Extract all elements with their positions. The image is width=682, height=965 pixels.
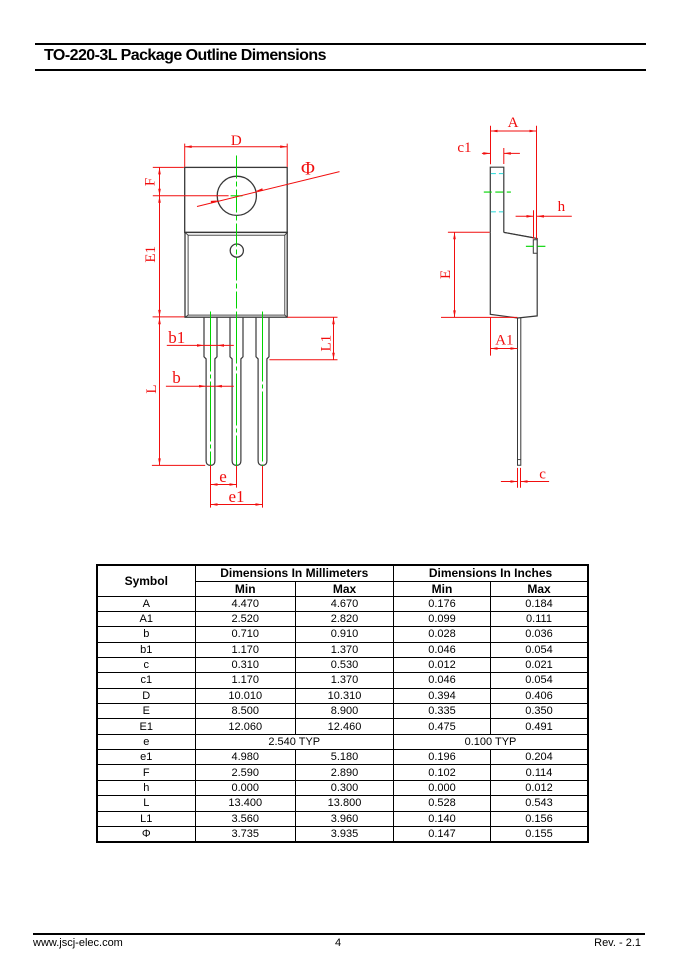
side view: top chamfer edge (504, 232, 532, 237)
svg-text:h: h (558, 199, 566, 215)
centerline: main vertical axis (front view) (236, 156, 238, 309)
dimensions table (96, 564, 589, 843)
svg-text:D: D (231, 133, 242, 149)
dimension e (lead pitch) (210, 465, 212, 507)
dimension b1 (lead width at base) (167, 344, 234, 346)
dimension L (lead length) (153, 316, 185, 318)
dimension b (lead width) (166, 385, 234, 387)
front view: lead 2 (center pin) (230, 318, 243, 466)
svg-text:c1: c1 (457, 140, 471, 156)
dimension A (overall thickness) (490, 126, 492, 165)
svg-text:e1: e1 (228, 487, 244, 506)
side view: body outline (490, 232, 537, 318)
front view: molded body outer outline (185, 232, 287, 317)
svg-text:E: E (438, 270, 454, 279)
svg-text:e: e (219, 467, 227, 486)
front view: lead 1 (left pin) (204, 318, 217, 466)
centerline: lead 1 axis (210, 312, 212, 468)
front view: tab outline with mounting flange (185, 167, 288, 232)
dimension &#934; leader (hole diameter) (197, 172, 340, 207)
dimension F (tab top to hole center) (153, 166, 184, 168)
svg-text:Φ: Φ (301, 158, 315, 179)
svg-text:E1: E1 (143, 246, 159, 263)
svg-text:c: c (539, 466, 546, 482)
front view: small hole on body (230, 244, 243, 257)
dimension E1 (hole center to body bottom) (158, 196, 161, 203)
svg-text:b1: b1 (168, 328, 185, 347)
dimension D (tab width) (184, 144, 186, 167)
centerline: groove horizontal (side view) (526, 245, 546, 247)
centerline: lead 2 axis (236, 312, 238, 469)
side view: lead (pin) (518, 318, 521, 465)
centerline: lead 3 axis (262, 312, 264, 468)
dimension c (lead thickness) (517, 468, 519, 488)
side view: tab hidden lines (cyan) (491, 173, 503, 175)
dimension h (groove step) (533, 210, 535, 239)
svg-text:A: A (508, 115, 519, 131)
front view: molded body inner bevel lines (185, 232, 287, 317)
svg-text:A1: A1 (495, 333, 513, 349)
footer rule (33, 933, 645, 935)
footer page number (0, 937, 676, 949)
page title header rule (bottom) (35, 69, 646, 71)
dimension c1 (tab thickness) (503, 148, 505, 164)
centerline: tab horizontal (side view) (484, 191, 511, 193)
svg-text:F: F (143, 178, 159, 186)
dimension E (body height) (448, 231, 490, 233)
svg-text:b: b (172, 368, 181, 387)
footer website (33, 937, 123, 949)
front view: mounting hole (217, 176, 256, 215)
centerline: mounting hole horizontal (231, 195, 243, 197)
page title header rule (top) (35, 43, 646, 45)
svg-text:L: L (144, 384, 160, 393)
side view: metal tab (vertical) (490, 167, 504, 232)
side view: side groove notch (533, 240, 537, 254)
dimension e1 (outer lead span) (211, 504, 263, 506)
front view: lead 3 (right pin) (256, 318, 269, 466)
footer revision (594, 937, 641, 949)
svg-text:L1: L1 (318, 335, 334, 352)
dimension A1 (body thickness at lead) (490, 317, 492, 355)
page title (44, 47, 326, 65)
dimension L1 (wide lead section length) (287, 316, 337, 318)
